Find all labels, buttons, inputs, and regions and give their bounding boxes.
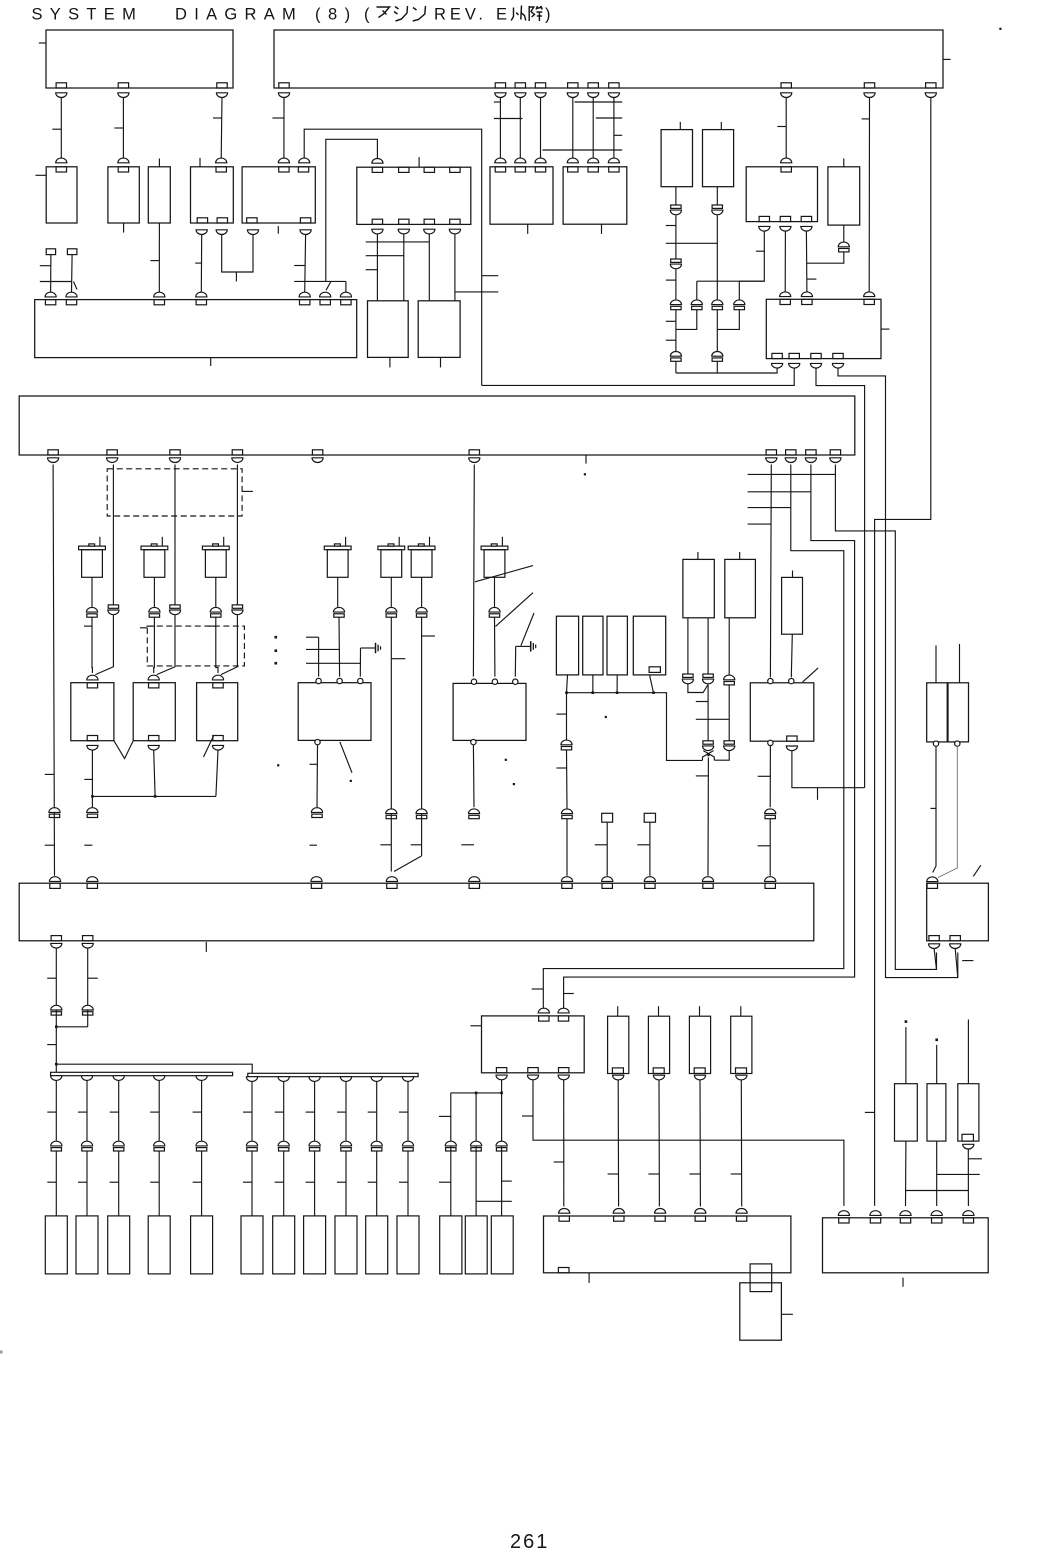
pin tab B8 top2: [588, 167, 598, 172]
slash below G1: [340, 742, 352, 773]
wire bus1-2 down: [86, 1080, 88, 1140]
tick wire Bp1 a: [45, 773, 55, 775]
cup below N1: [613, 1075, 624, 1080]
page number: [510, 1531, 549, 1553]
tick bus1-5 a: [193, 1111, 202, 1113]
wire FA2 down: [71, 255, 74, 293]
slash at J topright: [803, 668, 819, 682]
small box SB above J: [782, 577, 803, 634]
tick bus1-1 b: [47, 1181, 56, 1183]
diag into A6 cup: [326, 281, 331, 290]
inline connector bus2-4: [340, 1141, 351, 1151]
inline connector mirror H1L: [682, 674, 693, 684]
tie wire U2-6/7: [596, 117, 622, 119]
cup above A2: [66, 292, 77, 297]
wire U2 pin x613.9: [613, 98, 615, 159]
dashed option box 2: [147, 626, 244, 666]
wire bus2-3 down b: [314, 1151, 316, 1216]
fuse box N2: [648, 1016, 669, 1073]
wire J low to cup: [769, 819, 771, 876]
wire Dbot2 down: [87, 948, 89, 1027]
wire Bp6 down: [472, 465, 475, 677]
cup above E1: [87, 675, 98, 680]
wire M6 down b: [421, 617, 423, 856]
tick bus wire b: [556, 767, 566, 769]
pin tab K b2: [950, 936, 960, 941]
cup above M tab: [736, 1209, 747, 1214]
wire G2 down: [472, 745, 475, 807]
inline connector bus1-5: [196, 1141, 207, 1151]
inline connector B3: [712, 300, 723, 310]
pin tab U1-3: [217, 83, 227, 88]
tick on wire U2-8: [777, 126, 786, 128]
junction dot g3b: [500, 1092, 503, 1095]
tick on wire R2a-3: [807, 278, 817, 280]
cup below B5 bot2: [300, 230, 311, 235]
stair tick 3: [748, 507, 791, 509]
elbow w3 to w1: [676, 310, 697, 330]
cup below Bp2: [107, 458, 118, 463]
net y373 to R3 pin: [676, 364, 777, 373]
tab inside RB3: [962, 1134, 973, 1141]
component M1: [79, 537, 106, 578]
tick bus2-2 a: [275, 1111, 284, 1113]
pin tab D3 top: [311, 883, 321, 888]
wire E2 down: [154, 750, 155, 796]
wire Bp8 route: [543, 465, 844, 1009]
pin tab D2 top: [87, 883, 97, 888]
ring G1 t3: [358, 678, 363, 683]
wire Bp9 route: [564, 465, 855, 1009]
cup onto D tab10: [765, 877, 776, 882]
wire net H1: [304, 129, 482, 385]
cup above M tab: [695, 1209, 706, 1214]
cup below B6 bot3: [424, 229, 435, 234]
tick bus2-5 b: [368, 1181, 377, 1183]
wire FT2 down: [649, 822, 651, 876]
inline connector H2: [724, 675, 735, 685]
wire U1-2 to J3-2: [122, 98, 124, 159]
cup above M tab: [559, 1209, 570, 1214]
cup below J3-4 bot1: [196, 230, 207, 235]
tick bus2-3 a: [306, 1111, 315, 1113]
V link below E1-E2: [114, 741, 133, 759]
float tab FT1: [602, 813, 613, 822]
cup below D bot1: [51, 943, 62, 948]
pcb box J: [750, 683, 814, 741]
pin tab B6 top4: [450, 167, 460, 172]
tick bus1-4 a: [150, 1111, 159, 1113]
cup below bus1-2: [81, 1076, 92, 1081]
tick bus2-4 a: [337, 1111, 346, 1113]
pin tab J3-4 top: [216, 167, 226, 172]
pin tab U2-8: [781, 83, 791, 88]
fuse box F2: [583, 616, 603, 675]
tick wire Bp1 b: [45, 844, 55, 846]
load box bus1-2: [76, 1216, 98, 1274]
pin tab U2-3: [515, 83, 525, 88]
stub below B5: [277, 226, 279, 234]
bus of F boxes: [567, 693, 703, 761]
controller box U1: [46, 30, 233, 88]
pcb box K: [927, 883, 989, 941]
ring G2 t1: [471, 679, 476, 684]
pin tab J3-4 bot2: [217, 218, 227, 223]
stub above N3: [699, 1006, 701, 1016]
connector cup U1-3: [216, 93, 227, 98]
cup below Bp5: [312, 458, 323, 463]
cup below Bp1: [48, 458, 59, 463]
relay box E2: [133, 683, 175, 741]
wire B5 bot2 to PCB-A pin5: [304, 235, 307, 293]
inline connector mirror A3: [670, 259, 681, 269]
pin tab A6: [320, 300, 330, 305]
tick Dbot2: [88, 977, 98, 979]
tie wire U2-5/6/7: [575, 101, 623, 103]
ring G1 t2: [337, 678, 342, 683]
wire comp M2 down: [153, 577, 155, 607]
wire M4 down: [337, 577, 339, 607]
gnd bus E row: [92, 795, 215, 797]
wire R3b3 route: [816, 368, 865, 788]
tie above A5-A7: [294, 280, 346, 282]
ring T2 bottom: [955, 741, 960, 746]
cup above L t1: [538, 1008, 549, 1013]
inline connector mirror w708 b: [703, 741, 714, 751]
cup below bus1-3: [113, 1076, 124, 1081]
tick bus2-1 a: [243, 1111, 252, 1113]
wire corner to A7: [345, 281, 347, 292]
U-link J3-4 bot2 to box5 bot1: [222, 235, 253, 273]
wire Bp1 down: [53, 465, 54, 876]
stub above H1: [697, 552, 699, 559]
wire J3-4 bot1 to PCB-A pin4: [200, 235, 202, 293]
dashed option box 1: [107, 469, 242, 516]
cup below bus2-2: [278, 1077, 289, 1082]
cup below Bp6: [469, 458, 480, 463]
wire FA1 down: [50, 255, 52, 293]
cup below R3b1: [772, 363, 783, 368]
stair tick 1: [748, 473, 836, 475]
group3 feeder: [451, 1092, 502, 1094]
wire K b2: [955, 949, 958, 978]
stair tick 2: [748, 491, 811, 493]
wire J3-3 to PCB-A pin3: [158, 223, 160, 292]
inline connector G2 low: [468, 809, 479, 819]
pin tab Bp8: [786, 450, 796, 455]
pcb box D: [19, 883, 814, 941]
stub right of P: [781, 1313, 793, 1315]
pin tab U2-2: [495, 83, 505, 88]
load box bus2-2: [273, 1216, 295, 1274]
wire bus1-5 down b: [201, 1151, 203, 1216]
pin tab A7: [341, 300, 351, 305]
inline connector bus2-6: [402, 1141, 413, 1151]
inline connector bus1-2: [81, 1141, 92, 1151]
pin tab K top: [927, 883, 937, 888]
relay box J3-2: [108, 167, 139, 223]
cup above N tab: [870, 1211, 881, 1216]
cup below E3: [212, 745, 223, 750]
load box bus1-3: [108, 1216, 130, 1274]
cup below N3: [694, 1075, 705, 1080]
driver box D2: [703, 130, 734, 187]
pin tab U2-4: [535, 83, 545, 88]
tick on wire U2-7: [614, 134, 622, 136]
svg-text:DIAGRAM: DIAGRAM: [175, 6, 303, 24]
wire Bp col 2 merge: [157, 615, 175, 675]
pin tab E1 bot: [87, 736, 97, 741]
tick bus1-1 a: [47, 1111, 56, 1113]
pin tab A2: [66, 300, 76, 305]
wire U2 pin x540.5: [540, 98, 542, 159]
pin tab Bp1: [48, 450, 58, 455]
wire bus2-3 down: [314, 1081, 316, 1140]
wire B6-4 down: [454, 234, 456, 301]
cup below B6 bot1: [372, 229, 383, 234]
wire Bp col 3 merge: [221, 615, 237, 675]
pin tab D1 top: [50, 883, 60, 888]
wire F4 down: [650, 675, 654, 693]
wire J ring bottom down: [769, 746, 771, 808]
wire Bp7 to boxJ ring1: [769, 465, 772, 678]
wire X down: [707, 758, 709, 876]
cup below bus2-5: [371, 1077, 382, 1082]
pin tab B6 top2: [399, 167, 409, 172]
leader diag d2: [496, 593, 534, 627]
svg-text:SYSTEM: SYSTEM: [32, 6, 144, 24]
relay box R2b: [828, 167, 860, 225]
pin tab D8 top: [645, 883, 655, 888]
cup below B5 bot1: [247, 230, 258, 235]
wire N1 down: [617, 1080, 619, 1207]
pin tab E3 bot: [213, 736, 223, 741]
tick bus2-5 a: [368, 1111, 377, 1113]
pin tab B5 top2: [298, 167, 308, 172]
tick Dbot1: [47, 977, 56, 979]
wire bus2-6 down b: [407, 1151, 409, 1216]
tie ticks B6 c: [366, 269, 378, 271]
load box bus2-5: [366, 1216, 388, 1274]
wire K b1: [934, 949, 936, 970]
cup above B7 top1: [495, 158, 506, 163]
relay box B7: [490, 167, 553, 224]
pin tab R3t1: [780, 299, 790, 304]
stub below M: [588, 1273, 590, 1283]
tick on wire J3-3: [150, 260, 159, 262]
cup below L b2: [527, 1075, 538, 1080]
svg-text:REV.: REV.: [434, 6, 487, 24]
junction dot E1: [91, 795, 94, 798]
stub above RB2: [936, 1045, 938, 1084]
wire U1-3 to J3-4: [220, 98, 223, 159]
tie ticks B6 b: [366, 255, 404, 257]
float tab FT2: [644, 813, 655, 822]
inline connector g3-2: [471, 1141, 482, 1151]
pin tab B6 bot2: [399, 219, 409, 224]
wire RB1 down: [905, 1141, 907, 1206]
wire gnd to G1 ring3: [359, 648, 361, 677]
load box g3-1: [440, 1216, 462, 1274]
wire g3-3 down: [501, 1080, 503, 1216]
ring J t1: [768, 678, 773, 683]
inline connector bus1-4: [154, 1141, 165, 1151]
inline connector M3: [210, 607, 221, 617]
wire M4 to G1 ring2: [338, 617, 341, 676]
inline connector bus1-1: [51, 1141, 62, 1151]
slash near K: [973, 865, 981, 876]
tie RB2-RB3: [937, 1173, 980, 1175]
cup onto D tab6: [561, 877, 572, 882]
junction dot X: [707, 754, 709, 756]
cup above A4: [196, 292, 207, 297]
stub below J3-2: [123, 223, 125, 233]
wire R2b join: [806, 252, 843, 263]
inline connector R2b: [838, 242, 849, 252]
cup above K: [927, 877, 938, 882]
wire w729 to X: [714, 751, 729, 760]
component M3: [202, 537, 229, 578]
dot top right: [999, 28, 1001, 30]
pin tab B8 top3: [609, 167, 619, 172]
wire bus2-2 down b: [283, 1151, 285, 1216]
tick L b2: [522, 1115, 533, 1117]
cup above B6 top1: [372, 158, 383, 163]
stub above T2: [959, 644, 961, 683]
svg-text:(: (: [364, 6, 370, 24]
junction dot E2: [154, 795, 157, 798]
cup onto D tab7: [602, 877, 613, 882]
inline connector bus2-5: [371, 1141, 382, 1151]
pin tab R2a bot1: [759, 216, 769, 221]
relay box R2a: [746, 167, 817, 222]
cup below K b2: [950, 944, 961, 949]
title CJK strokes: [377, 6, 551, 24]
stub below box B: [585, 455, 587, 464]
stub above N1: [617, 1006, 619, 1016]
connector cup U2-2: [495, 93, 506, 98]
cup below R2a bot3: [801, 226, 812, 231]
wire bus2-1 down: [251, 1081, 253, 1140]
tick M5 low: [380, 844, 391, 846]
driver box H2: [725, 559, 756, 617]
stair tick 4: [748, 523, 772, 525]
load box bus2-1: [241, 1216, 263, 1274]
ring J bottom: [768, 740, 773, 745]
cup below K b1: [929, 944, 940, 949]
ring G1 bottom: [315, 739, 320, 744]
wire U2 pin x593.2: [592, 98, 594, 159]
wire B6-3 down: [428, 234, 430, 301]
wire E3 down: [216, 750, 218, 796]
cup below Bp4: [232, 458, 243, 463]
tab inside M bottom: [558, 1268, 569, 1273]
wire w3 drop: [696, 281, 698, 299]
wire bus left down: [566, 693, 568, 740]
relay box C2: [418, 301, 460, 358]
wire N3 down: [699, 1080, 701, 1207]
cup above L t2: [558, 1008, 569, 1013]
tab inside N4: [736, 1068, 747, 1074]
svg-text:261: 261: [510, 1531, 549, 1553]
stub right of R3: [881, 328, 889, 330]
pin tab B8 top1: [568, 167, 578, 172]
inline connector B1: [670, 300, 681, 310]
fuse box F3: [607, 616, 627, 675]
pin tab Bp3: [170, 450, 180, 455]
pin tab R2a top: [781, 167, 791, 172]
inline connector bus2-1: [246, 1141, 257, 1151]
pin tab D4 top: [387, 883, 397, 888]
tick cluster w1 c: [666, 320, 676, 322]
stub below C1: [389, 357, 391, 367]
wire Dbot1 down: [55, 948, 57, 1072]
wire M7 to G2 ring2: [494, 617, 496, 676]
cup below R2a bot2: [780, 226, 791, 231]
cup above N tab: [838, 1211, 849, 1216]
tie w708-w729: [696, 718, 729, 720]
pin tab B7 top2: [515, 167, 525, 172]
wire J bot2 route: [792, 751, 865, 788]
tick N3: [689, 1173, 700, 1175]
cup below bus2-6: [402, 1077, 413, 1082]
cup below N2: [653, 1075, 664, 1080]
stub above SB: [792, 571, 794, 578]
pin tab D7 top: [602, 883, 612, 888]
tick bus1-3 a: [110, 1111, 119, 1113]
load box bus1-4: [148, 1216, 170, 1274]
connector cup U2-3: [515, 93, 526, 98]
pin tab U1-1: [56, 83, 66, 88]
pin tab L t2: [558, 1016, 568, 1021]
pin tab R2a bot3: [801, 216, 811, 221]
tick g3-3 a: [502, 1180, 512, 1182]
motor unit G2: [453, 683, 526, 740]
cup below D bot2: [82, 943, 93, 948]
tick FT2: [637, 844, 650, 846]
tick bus2-2 b: [275, 1181, 284, 1183]
inline connector B4: [734, 300, 745, 310]
pin tab N: [963, 1218, 973, 1223]
pin tab M: [655, 1216, 665, 1221]
pin tab L t1: [539, 1016, 549, 1021]
load box bus2-6: [397, 1216, 419, 1274]
twin box T2: [948, 683, 969, 742]
tab inside N3: [694, 1068, 705, 1074]
stub above H2: [739, 552, 741, 559]
pin tab B5 bot2: [300, 218, 310, 223]
wire w1 seg3: [675, 269, 677, 299]
bus bar 1: [51, 1072, 233, 1075]
wire R3b4 route: [838, 368, 958, 978]
stub above B6: [418, 157, 420, 167]
connector cup U2-8: [781, 93, 792, 98]
pin tab Bp2: [107, 450, 117, 455]
inline connector bus1-3: [113, 1141, 124, 1151]
connector rect M-P: [750, 1264, 772, 1292]
wire w708 down: [707, 685, 709, 741]
svg-text:): ): [545, 6, 551, 24]
tick bus2-6 a: [399, 1111, 408, 1113]
pcb box B: [19, 396, 855, 455]
wire bus2-2 down: [283, 1081, 285, 1140]
wire FT1 down: [606, 822, 608, 876]
pin tab U2-5: [568, 83, 578, 88]
cup below bus1-4: [154, 1076, 165, 1081]
wire R2a-2 to R3 pin1: [784, 231, 786, 292]
fuse box F4: [633, 616, 665, 675]
bus bar 2: [248, 1073, 418, 1076]
